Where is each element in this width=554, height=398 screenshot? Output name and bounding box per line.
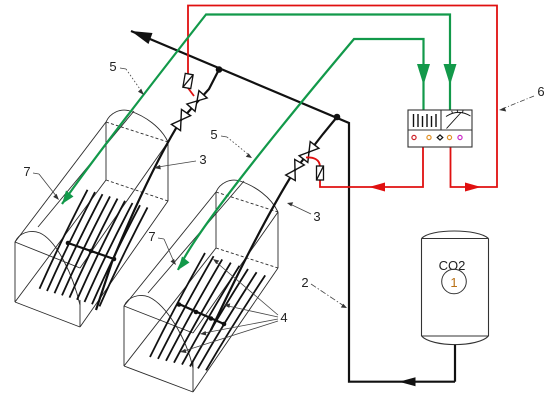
- red control line to solenoid valve 1: [188, 6, 497, 188]
- svg-text:6: 6: [537, 84, 544, 99]
- red flow arrow (right): [465, 183, 481, 192]
- controller bar display: [414, 114, 437, 127]
- valve V1b on branch 1: [171, 109, 190, 130]
- greenhouse 1 pipe array (4): [40, 190, 148, 307]
- svg-text:CO2: CO2: [439, 258, 466, 273]
- flow arrow at top-left end of supply line: [131, 31, 153, 44]
- valve V2a on branch 2: [299, 142, 319, 163]
- svg-text:1: 1: [450, 275, 457, 290]
- green sensor arrow into greenhouse 1 (7): [62, 191, 74, 205]
- valve V2b on branch 2: [286, 159, 305, 180]
- svg-text:4: 4: [280, 310, 287, 325]
- green sensor arrow into greenhouse 2 (7): [178, 257, 190, 271]
- svg-text:2: 2: [301, 275, 308, 290]
- controller unit (6): [408, 110, 472, 147]
- branch pipe to greenhouse 2 (3): [211, 117, 337, 330]
- green arrow into controller (line 5 from greenhouse 2): [417, 64, 430, 85]
- label 1 circle: [442, 269, 467, 294]
- svg-text:3: 3: [199, 152, 206, 167]
- greenhouse 2 wireframe: [124, 180, 278, 392]
- greenhouse 1 manifold: [68, 243, 114, 259]
- flow arrow on bottom supply line: [399, 377, 416, 386]
- svg-text:3: 3: [313, 209, 320, 224]
- svg-text:7: 7: [23, 164, 30, 179]
- green arrow into controller (line 5 from greenhouse 1): [444, 64, 457, 85]
- svg-text:7: 7: [148, 229, 155, 244]
- junction node to greenhouse 1 branch: [216, 66, 223, 73]
- greenhouse 1 wireframe: [15, 110, 168, 327]
- valve V1a on branch 1: [187, 91, 207, 112]
- controller gauge: [446, 110, 471, 129]
- branch pipe to greenhouse 1 (3): [96, 70, 219, 311]
- svg-text:5: 5: [210, 127, 217, 142]
- red control line to solenoid valve 2: [306, 147, 423, 187]
- svg-text:5: 5: [109, 59, 116, 74]
- green sensor line from greenhouse 1 (5): [62, 15, 450, 205]
- greenhouse 2 pipe array (4): [150, 253, 265, 370]
- greenhouse 2 manifold: [179, 304, 224, 324]
- solenoid valve body 1: [183, 73, 193, 88]
- solenoid valve body 2: [317, 166, 324, 180]
- green sensor line from greenhouse 2 (5): [178, 39, 424, 270]
- red flow arrow (left): [369, 183, 385, 192]
- controller indicator lights: [412, 135, 462, 140]
- main CO2 supply line (2): [131, 31, 455, 382]
- CO2 tank (1): [422, 231, 489, 382]
- junction node to greenhouse 2 branch: [334, 114, 341, 121]
